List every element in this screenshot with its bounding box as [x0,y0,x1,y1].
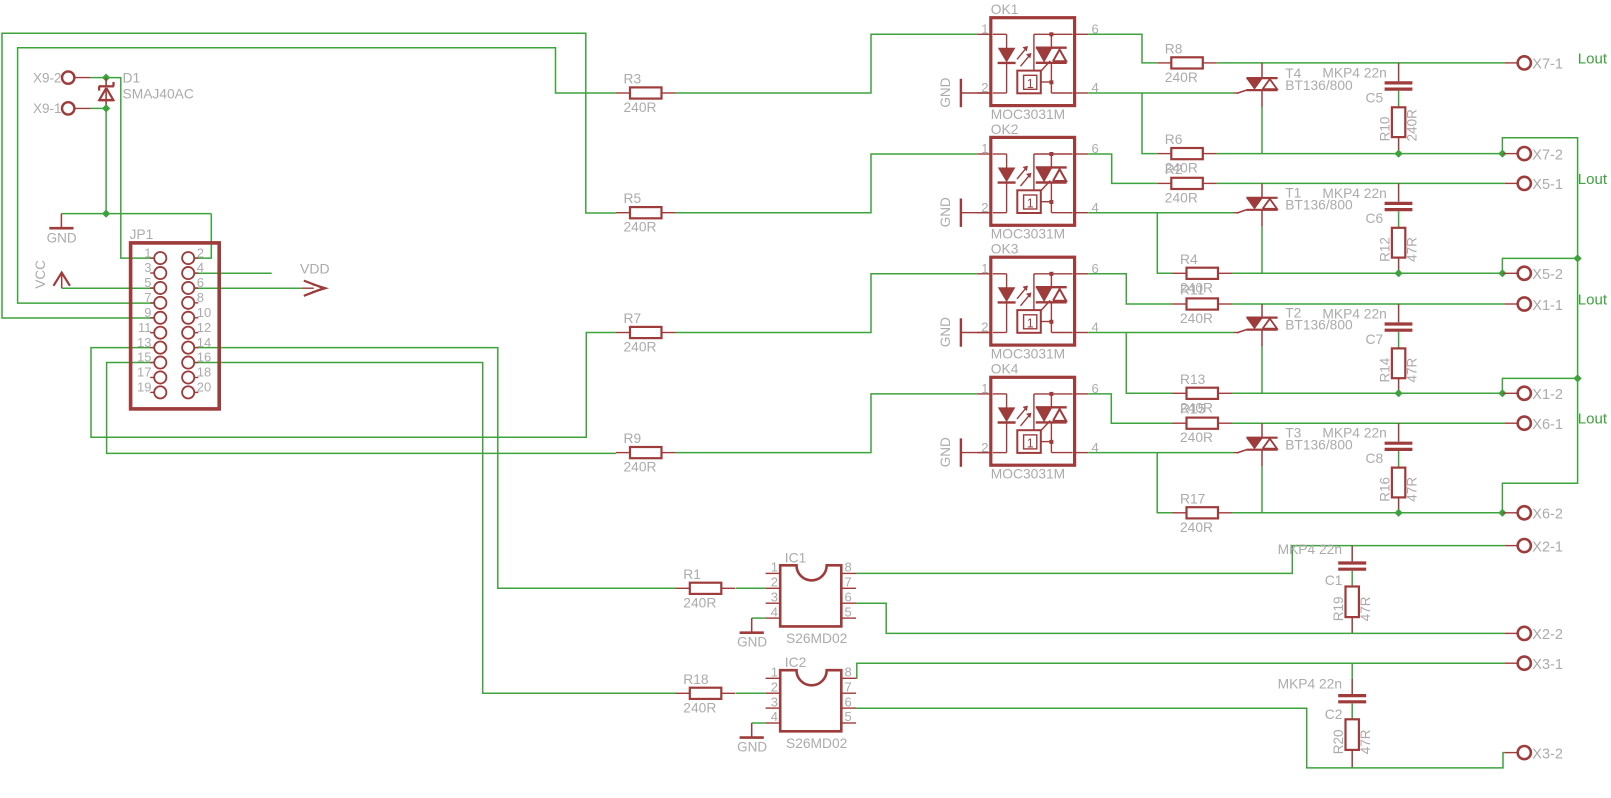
IC2 pin 2 [766,692,781,694]
wire OK3 pin4 gate line [1088,332,1234,334]
IC2 pin 5 [841,722,856,724]
connector pin X7-2 [1502,153,1518,155]
svg-text:C8: C8 [1366,451,1384,466]
triac T4 BT136/800 [1261,63,1263,78]
ground symbol GND left [60,214,62,227]
wire OK2 pin6 to R2 [1088,154,1157,183]
svg-text:18: 18 [197,365,211,380]
IC2 pin 1 [766,677,781,679]
JP1 pin 7 [150,302,154,304]
wire IC2 pin4 to GND [752,722,766,724]
capacitor C8 MKP4 22n [1398,423,1400,441]
triac T3 BT136/800 [1261,423,1263,438]
svg-text:X6-2: X6-2 [1532,507,1563,523]
svg-text:12: 12 [197,320,211,335]
svg-text:240R: 240R [624,340,657,355]
svg-text:6: 6 [845,589,852,604]
svg-text:4: 4 [197,260,204,275]
junction at R10 bottom [1395,150,1402,157]
svg-text:1: 1 [144,245,151,260]
wire R to OK3 pin1 [676,274,978,333]
svg-text:R6: R6 [1165,132,1183,147]
connector pin X7-1 [1505,62,1518,64]
JP1 pin 13 [150,347,154,349]
wire C1 to R19 [1351,571,1353,587]
resistor R19 47R [1346,587,1359,618]
svg-text:C7: C7 [1366,332,1384,347]
wire X9-1 to node [91,107,106,109]
svg-text:47R: 47R [1405,477,1420,502]
resistor R7 240R [616,332,630,334]
svg-text:7: 7 [144,290,151,305]
svg-text:19: 19 [137,380,151,395]
svg-text:C6: C6 [1366,211,1384,226]
IC1 pin 1 [766,572,781,574]
svg-text:240R: 240R [1180,311,1213,326]
svg-text:X7-2: X7-2 [1532,147,1563,163]
svg-text:Lout: Lout [1578,50,1608,67]
wire JP1 pin16 to R18 [194,363,677,694]
svg-text:R5: R5 [624,191,642,206]
svg-text:D1: D1 [123,70,141,85]
resistor R13 240R [1173,392,1187,394]
svg-text:2: 2 [771,679,778,694]
IC1 pin 3 [766,602,781,604]
svg-text:X2-2: X2-2 [1532,627,1563,643]
wire R15 to X6-1 net [1232,422,1505,424]
optocoupler OK1 MOC3031M [991,18,1075,106]
svg-text:240R: 240R [683,595,716,610]
wire bus tap X1-2 [1502,378,1577,393]
optocoupler OK2 MOC3031M [991,137,1075,225]
wire R18 to IC2 pin2 [736,692,766,694]
triac T1 BT136/800 [1261,183,1263,197]
svg-text:2: 2 [771,575,778,590]
svg-text:OK1: OK1 [991,2,1019,17]
svg-text:C1: C1 [1325,573,1343,588]
svg-text:X1-1: X1-1 [1532,298,1563,314]
connector pin X1-2 [1502,392,1518,394]
svg-text:C2: C2 [1325,707,1343,722]
wire node B down to GND net [105,108,107,213]
JP1 pin 1 [150,257,154,259]
wire R8 to X7-1 net [1217,62,1505,64]
svg-text:MKP4 22n: MKP4 22n [1278,677,1342,692]
svg-text:MOC3031M: MOC3031M [991,107,1065,122]
junction at X7-2 riser [1499,150,1506,157]
svg-text:R20: R20 [1331,730,1346,755]
connector pin X3-2 [1505,752,1518,754]
resistor R15 240R [1173,422,1187,424]
resistor R9 240R [616,452,630,454]
wire GND net to JP1 pin2 [194,214,211,259]
wire R13 to X1-2 net [1232,392,1502,394]
svg-text:240R: 240R [1405,109,1420,142]
capacitor C5 MKP4 22n [1398,63,1400,81]
svg-text:4: 4 [771,604,778,619]
IC2 pin 6 [841,707,856,709]
wire IC2 pin8 to X3-1 [856,663,1505,678]
connector pin X5-1 [1505,182,1518,184]
IC2 pin 8 [841,677,856,679]
svg-text:8: 8 [197,290,204,305]
IC2 pin 7 [841,692,856,694]
svg-text:GND: GND [938,317,953,347]
capacitor C1 MKP4 22n [1351,546,1353,562]
JP1 pin 17 [150,376,154,378]
svg-text:240R: 240R [624,100,657,115]
resistor R18 240R [676,692,690,694]
svg-text:1: 1 [1027,437,1034,451]
svg-text:5: 5 [144,275,151,290]
svg-text:GND: GND [737,740,767,755]
svg-text:X9-1: X9-1 [33,101,62,116]
IC2 pin 4 [766,722,781,724]
svg-text:8: 8 [845,560,852,575]
svg-text:X1-2: X1-2 [1532,387,1563,403]
svg-text:4: 4 [771,709,778,724]
wire gate branch to R4 [1157,213,1172,274]
wire T2 MT1 to X1-2 net [1261,347,1263,394]
svg-text:20: 20 [197,380,211,395]
svg-text:S26MD02: S26MD02 [786,736,847,751]
JP1 pin 2 [195,257,199,259]
wire gate branch to R13 [1126,333,1172,394]
resistor R1 240R [676,587,690,589]
svg-text:1: 1 [1027,316,1034,330]
svg-text:R18: R18 [683,672,709,687]
JP1 pin 3 [150,272,154,274]
svg-text:Lout: Lout [1578,292,1608,309]
svg-text:240R: 240R [683,700,716,715]
supply VCC arrow [54,273,70,286]
connector pin X2-1 [1505,545,1518,547]
connector pin X9-2 [62,71,74,83]
svg-text:240R: 240R [1165,190,1198,205]
svg-text:MOC3031M: MOC3031M [991,227,1065,242]
ground symbol at IC2 [751,723,753,737]
resistor R20 47R [1346,719,1359,750]
svg-text:47R: 47R [1405,237,1420,262]
resistor R3 240R [616,92,630,94]
wire IC1 pin4 to GND [752,617,766,619]
resistor R6 240R [1157,153,1171,155]
svg-text:X9-2: X9-2 [33,70,62,85]
JP1 pin 15 [150,362,154,364]
wire OK4 pin6 to R15 [1088,394,1172,423]
svg-text:1: 1 [981,141,988,156]
connector JP1 [131,243,220,409]
svg-text:VDD: VDD [300,260,330,276]
junction bus tap 1 [1574,255,1581,262]
svg-text:OK2: OK2 [991,122,1019,137]
svg-text:X5-2: X5-2 [1532,267,1563,283]
wire R to OK4 pin1 [676,394,978,453]
svg-text:GND: GND [737,635,767,650]
wire R2 to X5-1 net [1217,182,1505,184]
svg-text:GND: GND [938,197,953,227]
wire JP1 pin6 to supply arrow [194,287,301,289]
svg-text:6: 6 [845,694,852,709]
wire OK1 pin6 to R8 [1088,34,1157,63]
wire VCC to JP1 pin5 [62,287,155,289]
wire JP1 pin13 to R7 [91,333,616,438]
svg-text:GND: GND [938,77,953,107]
diode D1 SMAJ40AC [105,78,107,87]
svg-text:R12: R12 [1378,237,1393,262]
JP1 pin 8 [195,302,199,304]
ground symbol at OK4 pin2 [961,452,991,454]
svg-text:13: 13 [137,335,151,350]
svg-text:3: 3 [771,589,778,604]
svg-text:10: 10 [197,305,211,320]
JP1 pin 18 [195,376,199,378]
svg-text:X6-1: X6-1 [1532,417,1563,433]
connector pin X3-1 [1505,662,1518,664]
svg-text:MKP4 22n: MKP4 22n [1322,426,1386,441]
IC2 pin 3 [766,707,781,709]
svg-text:1: 1 [1027,77,1034,91]
JP1 pin 14 [195,347,199,349]
capacitor C6 MKP4 22n [1398,183,1400,201]
JP1 pin 6 [195,287,199,289]
resistor R11 240R [1173,303,1187,305]
ground symbol at IC1 [751,618,753,632]
capacitor C7 MKP4 22n [1398,304,1400,322]
wire C6 to R12 [1398,211,1400,228]
svg-text:240R: 240R [1180,430,1213,445]
junction at X5-2 riser [1499,270,1506,277]
node B junction [103,105,110,112]
svg-text:16: 16 [197,350,211,365]
svg-text:1: 1 [981,381,988,396]
svg-text:R13: R13 [1180,372,1206,387]
junction at R12 bottom [1395,270,1402,277]
svg-text:MOC3031M: MOC3031M [991,467,1065,482]
svg-text:R19: R19 [1331,597,1346,622]
svg-text:Lout: Lout [1578,411,1608,428]
svg-text:240R: 240R [1165,70,1198,85]
wire T3 MT1 to X6-2 net [1261,467,1263,513]
resistor R17 240R [1173,512,1187,514]
ground symbol at OK2 pin2 [961,212,991,214]
svg-text:11: 11 [138,320,152,335]
svg-text:MKP4 22n: MKP4 22n [1322,306,1386,321]
IC IC2 S26MD02 [780,670,841,731]
wire X9-2 to node [91,77,106,79]
supply arrow right [301,287,314,289]
resistor R16 47R [1392,468,1405,498]
wire T4 MT1 to X7-2 net [1261,107,1263,154]
svg-text:3: 3 [144,260,151,275]
svg-text:IC2: IC2 [785,655,806,670]
JP1 pin 9 [150,317,154,319]
GND net junction [103,210,110,217]
wire bus tap X5-2 [1502,258,1577,273]
wire R11 to X1-1 net [1232,303,1505,305]
wire OK3 pin6 to R11 [1088,274,1172,304]
wire JP1 pin9 to R5 [2,33,616,318]
svg-text:7: 7 [845,575,852,590]
svg-text:5: 5 [845,709,852,724]
wire GND net horizontal [61,213,211,215]
connector pin X1-1 [1505,303,1518,305]
wire T1 MT1 to X5-2 net [1261,227,1263,274]
svg-text:R14: R14 [1378,357,1393,382]
svg-text:R2: R2 [1165,162,1183,177]
wire gate branch to R17 [1157,453,1172,513]
svg-text:R17: R17 [1180,491,1205,506]
wire OK4 pin4 gate line [1088,452,1234,454]
svg-text:R10: R10 [1378,117,1393,142]
svg-text:240R: 240R [1180,520,1213,535]
svg-text:MOC3031M: MOC3031M [991,347,1065,362]
connector pin X6-2 [1502,512,1518,514]
svg-text:R3: R3 [624,72,642,87]
svg-text:C5: C5 [1366,91,1384,106]
resistor R14 47R [1392,348,1405,378]
svg-text:VCC: VCC [33,260,48,289]
capacitor C2 MKP4 22n [1351,663,1353,679]
JP1 pin 20 [195,391,199,393]
svg-text:R11: R11 [1180,283,1204,298]
JP1 pin 4 [195,272,199,274]
svg-text:R4: R4 [1180,252,1198,267]
svg-text:1: 1 [1027,197,1034,211]
svg-text:1: 1 [981,261,988,276]
junction at X6-2 riser [1499,509,1506,516]
svg-text:X3-1: X3-1 [1532,657,1563,673]
svg-text:9: 9 [144,305,151,320]
JP1 pin 5 [150,287,154,289]
wire C2 to R20 [1351,703,1353,719]
wire JP1 pin15 to R9 [107,363,616,454]
svg-text:7: 7 [845,679,852,694]
resistor R10 240R [1392,107,1405,137]
svg-text:X5-1: X5-1 [1532,177,1563,193]
svg-text:OK4: OK4 [991,362,1019,377]
svg-text:R8: R8 [1165,41,1183,56]
resistor R4 240R [1173,272,1187,274]
svg-text:6: 6 [197,275,204,290]
svg-text:17: 17 [137,365,151,380]
wire R17 to X6-2 net [1232,512,1502,514]
svg-text:R7: R7 [624,311,642,326]
junction bus tap 2 [1574,375,1581,382]
JP1 pin 16 [195,362,199,364]
IC1 pin 2 [766,587,781,589]
node A junction [103,74,110,81]
svg-text:S26MD02: S26MD02 [786,631,847,646]
wire OK2 pin4 gate line [1088,212,1234,214]
svg-text:OK3: OK3 [991,242,1019,257]
IC1 pin 7 [841,587,856,589]
resistor R5 240R [616,212,630,214]
wire JP1 pin7 to R3 [18,48,616,303]
resistor R12 47R [1392,228,1405,258]
wire R1 to IC1 pin2 [736,587,766,589]
svg-text:R15: R15 [1180,402,1206,417]
wire OK1 pin4 gate line [1088,92,1234,94]
junction at X1-2 riser [1499,390,1506,397]
svg-text:R1: R1 [683,567,701,582]
svg-text:47R: 47R [1358,729,1373,754]
svg-text:IC1: IC1 [785,550,806,565]
IC1 pin 6 [841,602,856,604]
wire C7 to R14 [1398,332,1400,349]
wire IC1 pin8 to X2-1 [856,546,1505,574]
junction at R16 bottom [1395,509,1402,516]
triac T2 BT136/800 [1261,304,1263,318]
wire C8 to R16 [1398,451,1400,468]
resistor R8 240R [1157,62,1171,64]
optocoupler OK4 MOC3031M [991,377,1075,465]
wire R to OK1 pin1 [676,34,978,93]
svg-text:1: 1 [771,665,778,680]
JP1 pin 10 [195,317,199,319]
wire JP1 pin14 to R1 [194,348,677,589]
svg-text:X3-2: X3-2 [1532,746,1563,762]
svg-text:8: 8 [845,665,852,680]
connector pin X2-2 [1505,632,1518,634]
resistor R2 240R [1157,182,1171,184]
optocoupler OK3 MOC3031M [991,257,1075,345]
JP1 pin 12 [195,332,199,334]
IC IC1 S26MD02 [780,565,841,626]
junction at R14 bottom [1395,390,1402,397]
ground symbol at OK1 pin2 [961,92,991,94]
svg-text:240R: 240R [624,220,657,235]
connector pin X9-1 [62,102,74,114]
svg-text:47R: 47R [1405,357,1420,382]
svg-text:GND: GND [47,230,77,245]
wire C5 to R10 [1398,91,1400,108]
svg-text:14: 14 [197,335,211,350]
svg-text:MKP4 22n: MKP4 22n [1278,542,1342,557]
wire R4 to X5-2 net [1232,272,1502,274]
svg-text:MKP4 22n: MKP4 22n [1322,65,1386,80]
JP1 pin 19 [150,391,154,393]
wire node A up-right corner to JP1 pin1 [106,78,155,259]
svg-text:SMAJ40AC: SMAJ40AC [123,86,194,101]
svg-text:1: 1 [771,560,778,575]
wire R6 to X7-2 net [1217,153,1503,155]
connector pin X5-2 [1502,272,1518,274]
IC1 pin 8 [841,572,856,574]
wire Lout bus [1502,138,1577,513]
svg-text:MKP4 22n: MKP4 22n [1322,186,1386,201]
JP1 pin 11 [150,332,154,334]
svg-text:GND: GND [938,437,953,467]
wire IC1 pin6 to X2-2 [856,603,1505,633]
svg-text:JP1: JP1 [130,227,154,242]
svg-text:3: 3 [771,694,778,709]
svg-text:15: 15 [137,350,151,365]
connector pin X6-1 [1505,422,1518,424]
svg-text:2: 2 [197,245,204,260]
wire gate branch to R6 [1142,93,1157,154]
svg-text:5: 5 [845,604,852,619]
IC1 pin 4 [766,617,781,619]
wire IC2 pin6 to X3-2 [856,708,1505,768]
svg-text:Lout: Lout [1578,171,1608,188]
svg-text:240R: 240R [624,460,657,475]
svg-text:47R: 47R [1358,596,1373,621]
svg-text:R9: R9 [624,431,642,446]
wire JP1 pin4 to VDD [194,272,272,274]
svg-text:1: 1 [981,22,988,37]
ground symbol at OK3 pin2 [961,332,991,334]
